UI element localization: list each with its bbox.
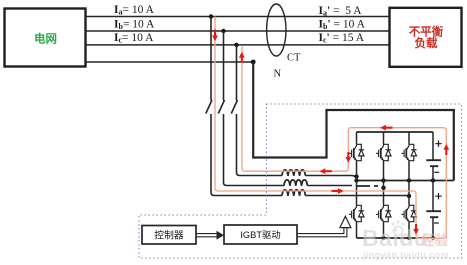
wire L3 to leg C node — [305, 195, 409, 197]
current arrow down left orange drop — [345, 152, 351, 163]
leg A upper wire — [356, 132, 358, 144]
svg-text:jingyan.baidu.com: jingyan.baidu.com — [362, 250, 449, 260]
wire branch A to bottom inductor line — [211, 114, 282, 196]
midpoint bus — [357, 180, 454, 182]
driver gate hollow arrow — [340, 216, 351, 227]
node mid bus capacitor — [431, 178, 435, 182]
node bottom bus capacitor — [431, 236, 435, 240]
wire branch B to middle inductor line — [224, 114, 285, 186]
switch S3 blade — [231, 100, 237, 114]
wire phase C — [86, 44, 391, 46]
driver output hollow bus — [297, 228, 347, 237]
svg-text:不平衡: 不平衡 — [409, 24, 444, 38]
leg A middle wire — [356, 162, 358, 205]
node tap C — [234, 43, 238, 47]
node bottom bus leg B — [382, 236, 386, 240]
node mid bus leg C — [407, 178, 411, 182]
grid source box 电网 — [5, 9, 86, 67]
capacitor C1 plates — [426, 160, 441, 166]
leg C lower wire — [408, 223, 410, 239]
wire tap C upper segment — [236, 45, 238, 101]
svg-text:CT: CT — [287, 53, 301, 64]
leg B middle wire — [383, 162, 385, 205]
controller box 控制器 — [142, 226, 196, 245]
wire dashed link to leg B — [356, 185, 378, 187]
wire L2 toward leg B — [307, 185, 352, 187]
svg-text:N: N — [274, 69, 282, 80]
svg-text:负载: 负载 — [415, 36, 438, 50]
wire neutral N — [86, 61, 254, 63]
wire phase A — [86, 16, 391, 18]
node mid bus leg A — [354, 178, 358, 182]
leg A lower wire — [356, 223, 358, 239]
wire tap B upper segment — [223, 31, 225, 101]
svg-text:控制器: 控制器 — [154, 228, 184, 241]
IGBT Q5 — [376, 205, 391, 223]
capacitor C1 plus sign — [435, 141, 441, 147]
current arrow right along lower orange run — [332, 188, 344, 194]
IGBT Q1 — [349, 144, 364, 162]
node phase into leg B — [381, 186, 385, 190]
compensation current path (orange) — [215, 17, 446, 239]
node phase into leg A — [354, 174, 358, 178]
svg-text:经验: 经验 — [421, 232, 448, 248]
IGBT Q3 — [401, 144, 416, 162]
leg C middle wire — [408, 162, 410, 205]
IGBT Q2 — [376, 144, 391, 162]
capacitor C1 minus sign — [434, 171, 439, 173]
node mid bus leg B — [381, 178, 385, 182]
node tap A — [209, 14, 213, 18]
neutral conductor into DC midpoint — [253, 62, 454, 181]
capacitor C1 lead — [432, 132, 434, 160]
current transformer CT ellipse — [267, 4, 286, 56]
current arrow left along mid orange run — [320, 168, 332, 174]
wire phase B — [86, 30, 391, 32]
capacitor C1 lower lead — [432, 167, 434, 181]
inductor L1 — [282, 170, 305, 176]
watermark baidu jingyan — [362, 220, 449, 260]
capacitor C2 lead — [432, 181, 434, 211]
current arrow up out to phase C — [239, 52, 245, 63]
DC bottom bus — [357, 237, 434, 239]
current arrow down orange drop after bridge — [413, 224, 419, 235]
IGBT driver box IGBT驱动 — [224, 225, 297, 244]
unbalanced load box 不平衡负载 — [390, 8, 462, 67]
wire L1 to leg A node — [305, 176, 356, 177]
current arrow up right orange riser — [443, 144, 449, 155]
capacitor C2 plus sign — [435, 193, 441, 199]
node bottom bus leg C — [407, 236, 411, 240]
inductor L2 — [284, 180, 307, 186]
leg C upper wire — [408, 132, 410, 144]
DC top bus — [357, 131, 434, 133]
wire tap A upper segment — [210, 17, 212, 101]
wire branch C to top inductor line — [237, 114, 283, 176]
node tap B — [221, 29, 225, 33]
switch S2 blade — [218, 100, 224, 114]
controller to driver double-line arrow — [196, 234, 217, 237]
switch S1 blade — [206, 100, 212, 114]
current arrow down into filter (phase A) — [212, 30, 218, 42]
IGBT Q4 — [349, 205, 364, 223]
capacitor C2 lower lead — [432, 218, 434, 238]
capacitor C2 minus sign — [434, 222, 439, 224]
node tap N — [251, 60, 256, 65]
leg B upper wire — [383, 132, 385, 144]
capacitor C2 plates — [426, 211, 441, 217]
svg-text:电网: 电网 — [34, 32, 57, 46]
current arrow left along top orange run — [380, 125, 392, 131]
IGBT Q6 — [401, 205, 416, 223]
svg-text:IGBT驱动: IGBT驱动 — [240, 230, 280, 240]
leg B lower wire — [383, 223, 385, 239]
APF enclosure dashed border — [139, 104, 462, 258]
inductor L3 — [282, 190, 305, 196]
node phase into leg C — [407, 194, 411, 198]
